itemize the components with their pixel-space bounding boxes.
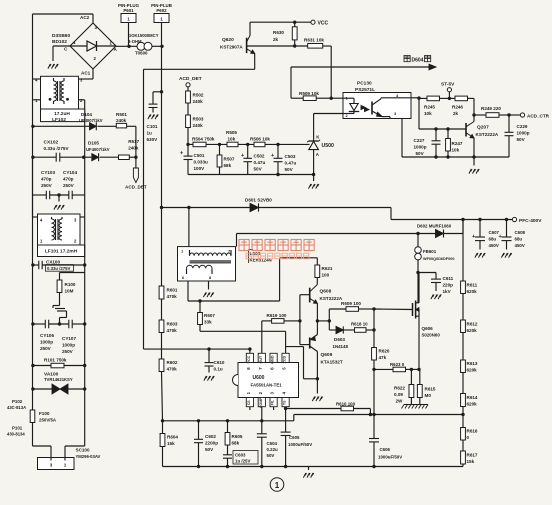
svg-text:C227: C227 — [414, 138, 425, 143]
svg-text:240k: 240k — [193, 123, 204, 128]
svg-text:LF102: LF102 — [52, 117, 66, 123]
svg-text:FIL: FIL — [271, 400, 275, 405]
svg-text:1u: 1u — [147, 131, 153, 136]
svg-text:68u: 68u — [515, 237, 523, 242]
svg-text:UF4007/1kV: UF4007/1kV — [86, 147, 110, 152]
svg-text:ZCD: ZCD — [283, 355, 287, 363]
svg-text:C610: C610 — [214, 360, 225, 365]
svg-text:P101: P101 — [12, 426, 23, 431]
svg-text:VCC: VCC — [318, 21, 329, 27]
svg-text:17.2uH: 17.2uH — [54, 111, 70, 117]
svg-text:C606: C606 — [380, 447, 391, 452]
svg-text:CY107: CY107 — [62, 336, 76, 341]
svg-text:FB601: FB601 — [423, 249, 437, 254]
svg-text:C501: C501 — [194, 153, 205, 158]
svg-text:R609 100: R609 100 — [341, 301, 361, 306]
svg-text:250V: 250V — [63, 183, 75, 188]
svg-text:R247: R247 — [452, 141, 463, 146]
svg-text:68k: 68k — [224, 163, 232, 168]
svg-text:S020N60: S020N60 — [422, 333, 441, 338]
svg-text:50V: 50V — [416, 151, 425, 156]
svg-text:SC100: SC100 — [76, 448, 90, 453]
svg-text:LF101 17.2mH: LF101 17.2mH — [45, 249, 78, 255]
svg-text:R604: R604 — [167, 435, 178, 440]
svg-text:PC130: PC130 — [357, 81, 372, 87]
svg-text:R612: R612 — [467, 322, 478, 327]
svg-text:P601: P601 — [123, 8, 134, 13]
svg-text:R503: R503 — [193, 117, 204, 122]
svg-text:240k: 240k — [116, 118, 127, 123]
svg-text:620k: 620k — [467, 402, 478, 407]
svg-text:470k: 470k — [167, 367, 178, 372]
svg-text:1000uF/50V: 1000uF/50V — [378, 455, 402, 460]
svg-text:CX100: CX100 — [46, 260, 60, 265]
svg-text:0.47u: 0.47u — [254, 160, 266, 165]
svg-text:470p: 470p — [63, 177, 74, 182]
svg-text:100: 100 — [322, 273, 330, 278]
svg-text:D601 S2VB0: D601 S2VB0 — [245, 198, 272, 203]
svg-text:KST2907A: KST2907A — [220, 45, 243, 50]
svg-text:R621: R621 — [322, 266, 333, 271]
svg-text:ACD_CTR: ACD_CTR — [527, 113, 550, 118]
svg-text:R509 10k: R509 10k — [299, 91, 319, 96]
svg-text:R619 100: R619 100 — [267, 313, 287, 318]
svg-text:C603: C603 — [235, 453, 246, 458]
svg-text:250V: 250V — [62, 349, 74, 354]
svg-text:R506 10k: R506 10k — [250, 136, 270, 141]
svg-text:AC1: AC1 — [81, 71, 91, 76]
svg-text:2200p: 2200p — [205, 441, 218, 446]
svg-text:ACD_DET: ACD_DET — [179, 76, 202, 82]
svg-text:2k: 2k — [273, 37, 279, 42]
svg-text:R610 100: R610 100 — [336, 402, 356, 407]
svg-text:10M: 10M — [65, 289, 74, 294]
svg-text:R613: R613 — [467, 361, 478, 366]
svg-text:50V: 50V — [205, 447, 214, 452]
svg-text:C602: C602 — [205, 434, 216, 439]
svg-text:C604: C604 — [267, 441, 278, 446]
svg-text:10k: 10k — [452, 148, 460, 153]
svg-text:R630: R630 — [273, 30, 284, 35]
svg-text:D604: D604 — [412, 58, 424, 64]
svg-text:R618 10: R618 10 — [351, 322, 368, 327]
svg-text:C101: C101 — [147, 124, 158, 129]
svg-text:47k: 47k — [379, 355, 387, 360]
svg-text:+: + — [241, 153, 244, 159]
svg-text:C229: C229 — [517, 124, 528, 129]
svg-text:P602: P602 — [156, 8, 167, 13]
svg-text:+: + — [271, 153, 274, 159]
svg-text:M0: M0 — [425, 393, 432, 398]
svg-text:1000uF/50V: 1000uF/50V — [288, 442, 312, 447]
svg-text:1000p: 1000p — [62, 343, 75, 348]
svg-text:620k: 620k — [467, 368, 478, 373]
svg-text:1000p: 1000p — [414, 145, 427, 150]
svg-text:68u: 68u — [489, 237, 497, 242]
svg-text:YM296-03AV: YM296-03AV — [76, 454, 101, 459]
svg-text:2W: 2W — [396, 399, 404, 404]
svg-text:450V: 450V — [515, 243, 525, 248]
svg-text:R505: R505 — [226, 130, 237, 135]
svg-text:KST2222A: KST2222A — [320, 296, 343, 301]
svg-text:R614: R614 — [467, 395, 478, 400]
svg-text:UF4007/1kV: UF4007/1kV — [79, 118, 103, 123]
svg-text:D105: D105 — [88, 141, 99, 146]
svg-text:470p: 470p — [41, 177, 52, 182]
svg-text:R605: R605 — [232, 434, 243, 439]
svg-text:8-OHM: 8-OHM — [128, 39, 142, 44]
svg-text:R616: R616 — [467, 429, 478, 434]
svg-text:KST2222A: KST2222A — [476, 132, 499, 137]
svg-text:BD102: BD102 — [52, 39, 67, 45]
svg-text:KTA1532T: KTA1532T — [321, 360, 343, 365]
svg-text:+: + — [472, 234, 475, 240]
svg-text:620k: 620k — [467, 328, 478, 333]
svg-text:T0600: T0600 — [135, 51, 148, 56]
svg-text:C608: C608 — [515, 230, 526, 235]
svg-text:10k: 10k — [228, 136, 236, 141]
svg-text:Q608: Q608 — [320, 289, 332, 295]
svg-text:R611: R611 — [467, 283, 478, 288]
svg-text:ST-5V: ST-5V — [441, 82, 455, 88]
svg-text:R631 10k: R631 10k — [304, 38, 324, 43]
svg-text:R504 750k: R504 750k — [192, 137, 215, 142]
svg-text:R245: R245 — [424, 105, 435, 110]
svg-text:WF00Q6D6DF000: WF00Q6D6DF000 — [423, 257, 454, 261]
svg-text:470k: 470k — [167, 294, 178, 299]
svg-text:630V: 630V — [147, 137, 159, 142]
svg-text:D3SB60: D3SB60 — [52, 33, 70, 39]
svg-text:R622: R622 — [394, 386, 405, 391]
svg-text:240k: 240k — [193, 99, 204, 104]
svg-text:15k: 15k — [167, 441, 175, 446]
svg-text:1000p: 1000p — [517, 131, 530, 136]
svg-text:R607: R607 — [204, 313, 215, 318]
svg-text:15k: 15k — [467, 459, 475, 464]
svg-text:R246: R246 — [452, 105, 463, 110]
svg-text:1: 1 — [64, 463, 67, 468]
svg-text:0.1u: 0.1u — [214, 367, 223, 372]
svg-text:U600: U600 — [253, 375, 265, 381]
svg-text:620k: 620k — [467, 289, 478, 294]
svg-text:450V: 450V — [489, 243, 499, 248]
svg-text:R502: R502 — [193, 93, 204, 98]
svg-text:OUT: OUT — [259, 355, 263, 364]
svg-text:0.33u /275V: 0.33u /275V — [44, 146, 70, 151]
svg-text:0: 0 — [467, 435, 470, 440]
svg-text:50V: 50V — [254, 167, 263, 172]
svg-text:250V: 250V — [41, 183, 53, 188]
svg-text:GND: GND — [271, 355, 275, 364]
svg-text:68k: 68k — [232, 441, 240, 446]
svg-text:Q606: Q606 — [422, 326, 434, 331]
svg-text:CS: CS — [247, 400, 251, 405]
svg-text:P102: P102 — [12, 399, 23, 404]
svg-text:D603: D603 — [334, 337, 345, 342]
svg-text:0.09: 0.09 — [394, 392, 403, 397]
svg-text:CY103: CY103 — [41, 170, 55, 175]
svg-text:0.47u: 0.47u — [285, 161, 297, 166]
svg-text:1: 1 — [127, 17, 130, 22]
svg-text:50V: 50V — [517, 137, 526, 142]
svg-text:R602: R602 — [167, 360, 178, 365]
svg-text:R249 220: R249 220 — [481, 106, 501, 111]
svg-text:50V: 50V — [267, 453, 275, 458]
svg-text:PS2571L: PS2571L — [355, 87, 375, 93]
svg-text:R101 750k: R101 750k — [44, 358, 67, 363]
svg-text:R617: R617 — [467, 453, 478, 458]
svg-text:AC2: AC2 — [80, 15, 90, 20]
svg-text:COMP: COMP — [259, 397, 263, 408]
svg-text:R603: R603 — [167, 322, 178, 327]
svg-text:D602 MURF1060: D602 MURF1060 — [417, 224, 452, 229]
svg-text:1: 1 — [275, 481, 280, 490]
svg-text:R620: R620 — [379, 349, 390, 354]
svg-text:U500: U500 — [322, 143, 335, 149]
svg-text:CX102: CX102 — [44, 140, 59, 146]
svg-text:220p: 220p — [443, 283, 454, 288]
svg-text:R615: R615 — [425, 387, 436, 392]
svg-text:430-8134: 430-8134 — [7, 432, 25, 437]
svg-text:0.22u: 0.22u — [267, 447, 279, 452]
svg-text:D104: D104 — [81, 112, 92, 117]
svg-text:33k: 33k — [204, 320, 212, 325]
svg-text:R623 0: R623 0 — [390, 362, 405, 367]
svg-text:R507: R507 — [224, 157, 235, 162]
svg-text:470k: 470k — [167, 328, 178, 333]
svg-text:TVR14621KSY: TVR14621KSY — [44, 377, 73, 382]
svg-text:PFC-400V: PFC-400V — [519, 218, 542, 224]
svg-text:250V: 250V — [40, 346, 52, 351]
svg-text:+: + — [180, 151, 183, 157]
svg-text:50V: 50V — [285, 167, 294, 172]
svg-text:R501: R501 — [116, 112, 127, 117]
svg-text:1u /25V: 1u /25V — [235, 459, 250, 464]
svg-text:VCC: VCC — [247, 355, 251, 363]
svg-text:R100: R100 — [65, 282, 76, 287]
svg-text:1kV: 1kV — [443, 289, 452, 294]
svg-text:C502: C502 — [254, 154, 265, 159]
svg-text:R601: R601 — [167, 288, 178, 293]
svg-text:R517: R517 — [128, 139, 139, 144]
svg-text:TS: TS — [283, 400, 287, 405]
svg-text:2k: 2k — [453, 111, 459, 116]
svg-text:100V: 100V — [194, 166, 206, 171]
svg-text:C611: C611 — [443, 276, 454, 281]
svg-text:GOK15000MCY: GOK15000MCY — [128, 33, 159, 38]
svg-text:250V/5A: 250V/5A — [39, 418, 57, 423]
svg-text:Q620: Q620 — [222, 37, 234, 43]
svg-text:+: + — [499, 234, 502, 240]
svg-text:CY104: CY104 — [63, 170, 77, 175]
svg-text:240k: 240k — [128, 146, 139, 151]
svg-text:3: 3 — [50, 463, 53, 468]
svg-text:C605: C605 — [289, 435, 300, 440]
svg-text:Q609: Q609 — [321, 352, 333, 358]
svg-text:1N4148: 1N4148 — [333, 344, 349, 349]
svg-text:CY106: CY106 — [40, 333, 54, 338]
svg-text:10k: 10k — [424, 111, 432, 116]
svg-text:C503: C503 — [285, 154, 296, 159]
svg-text:0.033u: 0.033u — [194, 160, 208, 165]
svg-text:0.33u /275V: 0.33u /275V — [47, 266, 71, 271]
svg-text:F100: F100 — [39, 411, 50, 416]
svg-text:1: 1 — [160, 17, 163, 22]
svg-text:FA5501AN-TE1: FA5501AN-TE1 — [251, 383, 283, 388]
svg-text:1000p: 1000p — [40, 340, 53, 345]
svg-text:Q207: Q207 — [477, 125, 489, 131]
svg-text:43C-813A: 43C-813A — [7, 405, 26, 410]
